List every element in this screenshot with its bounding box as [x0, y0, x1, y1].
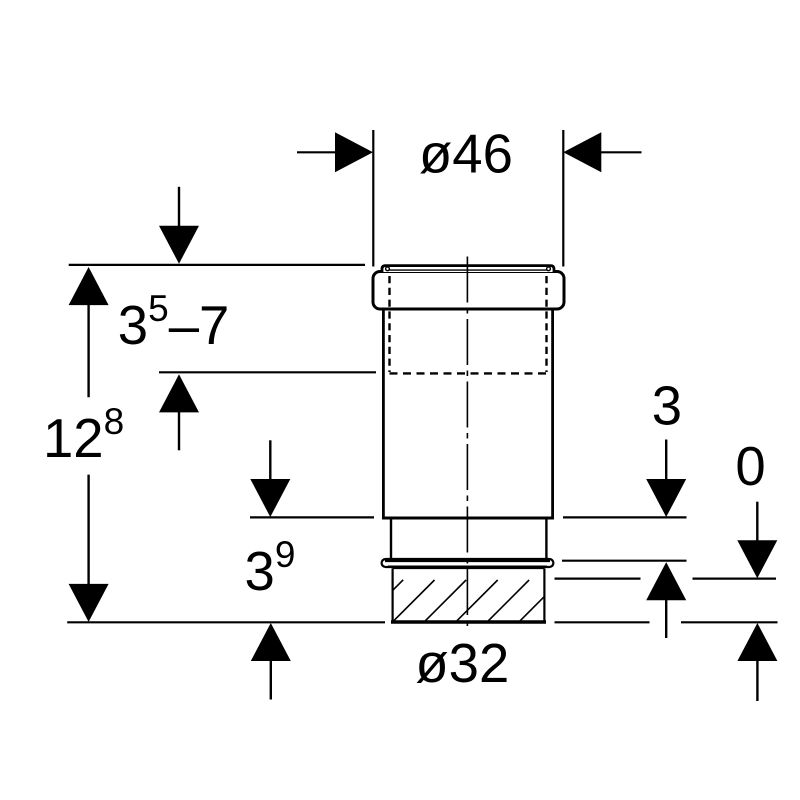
body wall right [551, 309, 554, 519]
arrow up at x757.4 below bottom datum (0 lower) [737, 623, 777, 661]
dimension line bottom datum left [67, 621, 385, 623]
svg-text:ø46: ø46 [419, 123, 513, 184]
lip corner bead right [547, 267, 551, 271]
bead inner thin line [388, 565, 547, 567]
arrow up at x270.8 below bottom datum (3.9 lower) [251, 623, 291, 661]
dimension line shoulder datum left [250, 516, 374, 518]
lip inner thin line [389, 269, 547, 271]
svg-text:0: 0 [735, 436, 765, 497]
shoulder line [382, 517, 554, 520]
spigot wall right [545, 518, 547, 559]
seal body outline [393, 568, 545, 622]
pipe lip (top rim) [382, 266, 554, 272]
svg-text:3: 3 [652, 376, 682, 437]
seal hatching [393, 580, 545, 621]
lip corner bead left [386, 267, 390, 271]
arrow down at x666.2 to shoulder datum (3 upper) [665, 440, 667, 481]
arrow down at x757.3 to seal top datum (0 upper) [756, 502, 758, 542]
centerline [466, 257, 468, 632]
dimension line bottom datum right [555, 621, 650, 623]
arrow up at x666.2 below bead datum (3 lower) [646, 562, 686, 600]
dimension line socket depth datum (3.5-7 lower) [159, 371, 376, 373]
svg-text:35–7: 35–7 [118, 288, 230, 356]
arrow up at x88.6 below top datum (12.8 upper) [69, 267, 109, 305]
extension line left (o46) [372, 130, 374, 267]
body wall left [382, 309, 385, 519]
inner bore dashed right [545, 276, 547, 372]
socket depth dashed line [390, 372, 547, 374]
arrow left-pointing (o46 right) [599, 151, 642, 153]
pipe socket flange [373, 272, 564, 310]
arrow down at x270.3 to shoulder datum (3.9 upper) [269, 440, 271, 480]
arrow down at x179 to top datum [178, 187, 180, 228]
bead top thick line [385, 560, 550, 562]
arrow up at x179 to socket depth datum (3.5-7 lower) [159, 374, 199, 412]
dimension line shoulder datum right [563, 516, 687, 518]
inner bore dashed left [388, 276, 390, 372]
bead capsule [382, 559, 554, 567]
dimension line bead datum right [562, 560, 687, 562]
svg-text:ø32: ø32 [415, 633, 509, 694]
arrow right-pointing (o46 left) [297, 151, 338, 153]
dimension line top (12.8 / 3.5-7 upper datum) [69, 264, 365, 266]
spigot wall left [390, 518, 392, 559]
extension line right (o46) [562, 130, 564, 267]
dimension line seal top datum right [555, 577, 641, 579]
arrow down at x88.6 to bottom datum (12.8 lower) [87, 475, 89, 585]
